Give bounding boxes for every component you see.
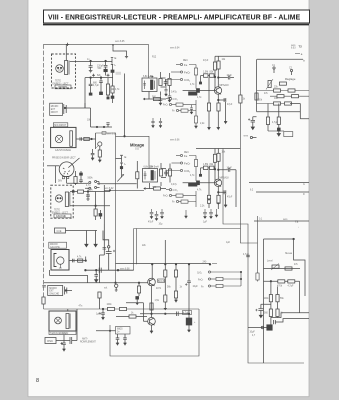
grounds under EQ R <box>159 86 193 113</box>
resistor on trimmer line <box>285 267 292 270</box>
cap inline <box>177 312 179 317</box>
svg-text:10μ: 10μ <box>159 224 164 226</box>
corner down <box>90 108 92 127</box>
ground triangle <box>190 112 193 114</box>
svg-text:vers 6.04: vers 6.04 <box>170 47 180 50</box>
base wire <box>183 90 217 92</box>
ground triangle <box>98 160 101 162</box>
switch contact E <box>111 58 113 61</box>
1k resistor wire <box>116 316 147 318</box>
ground triangle <box>150 217 153 219</box>
DIN pin squares <box>62 177 64 179</box>
label box MICRO EXT DROIT <box>50 103 63 115</box>
svg-text:DIN: DIN <box>58 181 62 183</box>
wire: east bus C <box>257 216 259 273</box>
link verticals <box>240 272 242 286</box>
svg-text:VIII - ENREGISTREUR-LECTEUR: VIII - ENREGISTREUR-LECTEUR - PREAMPLI- … <box>48 15 301 22</box>
wire: top rail right channel <box>44 44 149 78</box>
wiper arrow <box>117 175 123 182</box>
junction <box>91 138 93 140</box>
cap+gnd c <box>160 209 164 218</box>
resistor v1 bottom <box>267 104 269 118</box>
svg-text:4,7μF: 4,7μF <box>288 286 295 288</box>
wire osc to caps <box>56 340 70 342</box>
svg-text:RONFLEMENT: RONFLEMENT <box>80 342 96 344</box>
contact FeCr L <box>180 162 182 164</box>
bottom line <box>268 130 284 132</box>
title box <box>43 10 310 25</box>
capacitor C1 <box>89 61 93 71</box>
jack bars <box>65 287 67 295</box>
svg-text:vers 6.08: vers 6.08 <box>120 267 130 270</box>
column wire <box>103 185 105 224</box>
svg-text:TETE: TETE <box>55 81 61 83</box>
svg-text:FeCr: FeCr <box>163 104 168 107</box>
resistor inline b2 <box>288 280 295 283</box>
ground triangle <box>155 219 158 221</box>
bus resistor <box>239 95 242 103</box>
resistor chain on line y=90.5 <box>257 90 309 92</box>
svg-text:T2: T2 <box>295 220 299 224</box>
wire mic L out <box>69 260 86 262</box>
svg-text:CrO₂: CrO₂ <box>184 169 190 173</box>
ground triangle <box>209 217 212 219</box>
wire Fe to chain L <box>189 156 196 160</box>
svg-text:10μF: 10μF <box>227 167 233 169</box>
chain x=189 elco <box>188 264 190 281</box>
dashed shield box TETE DROITE <box>52 54 76 88</box>
ground triangle <box>207 199 210 201</box>
wire: mixage divider <box>116 133 150 283</box>
junction rail <box>102 308 104 310</box>
ground under C1 <box>89 71 93 73</box>
wire cue out <box>66 230 98 232</box>
wire: left frame vertical <box>43 44 45 297</box>
gnd g <box>215 209 218 217</box>
ground triangle <box>168 100 171 102</box>
cap with dark body <box>80 171 82 173</box>
switch lower lead <box>121 169 123 178</box>
junction dot <box>90 77 92 79</box>
transistor Q5 <box>148 278 156 286</box>
step line 2 <box>276 319 310 322</box>
svg-text:4,7μF: 4,7μF <box>183 313 190 315</box>
ground triangle <box>174 300 177 302</box>
inline resistor mic L <box>78 259 83 262</box>
switch lead vertical x124.5 <box>124 74 126 137</box>
second RC <box>169 164 171 170</box>
svg-text:vers 6.05: vers 6.05 <box>115 40 125 43</box>
pot chain box <box>98 292 101 298</box>
stage rail <box>215 55 240 57</box>
din column to cap row <box>103 224 105 255</box>
CUE box <box>55 228 66 233</box>
dark cap v2 <box>277 128 280 131</box>
resistor R2 vertical <box>112 72 114 86</box>
svg-text:R12: R12 <box>152 57 157 59</box>
svg-text:FeCr: FeCr <box>184 161 190 165</box>
bias resistor Rh1 <box>204 74 209 78</box>
OSC box <box>45 338 56 344</box>
svg-text:6,8k 1,5H: 6,8k 1,5H <box>144 166 154 168</box>
contact CrO2 2b <box>169 189 171 191</box>
chain y=103.5 <box>257 103 291 105</box>
chain x277.5 <box>277 287 279 318</box>
resistor below <box>95 206 97 209</box>
cap C3 bottom blob <box>89 93 92 95</box>
capacitor C3 <box>89 78 93 93</box>
wire into DIN left <box>47 165 59 167</box>
svg-text:↓: ↓ <box>298 226 299 229</box>
inline resistor rail 1 <box>108 307 115 310</box>
ground triangle <box>184 216 187 218</box>
dark tag box <box>189 183 198 186</box>
junction top rail <box>112 44 114 46</box>
frame cap <box>42 285 46 287</box>
ground triangle <box>123 343 126 345</box>
label box 6805 <box>116 327 131 335</box>
resistor to FeCr b <box>176 103 183 106</box>
wire head L output <box>70 191 110 193</box>
svg-text:OSC: OSC <box>47 339 53 343</box>
svg-text:0,47μ: 0,47μ <box>171 184 177 186</box>
gnd d <box>184 210 187 218</box>
erase head circle <box>55 317 62 324</box>
cap on mic out <box>73 259 75 263</box>
wire head R output <box>70 61 112 63</box>
svg-text:6.03: 6.03 <box>291 47 296 49</box>
output block outline left <box>263 239 265 363</box>
parallel RC <box>160 163 162 186</box>
svg-text:Fe: Fe <box>184 63 188 67</box>
chain x270.9 <box>270 281 272 327</box>
cap under junction <box>86 192 90 201</box>
contact circle rec <box>108 246 110 248</box>
contact a1 <box>89 182 91 184</box>
line y=314 <box>140 313 189 315</box>
head L core bars <box>65 192 68 207</box>
transistor T1 <box>214 87 221 94</box>
collector rail <box>116 263 211 265</box>
wire: bottom loop <box>110 309 199 356</box>
dark blob cap <box>99 214 102 217</box>
series cap on bus B <box>246 255 250 256</box>
svg-text:EXT: EXT <box>51 109 56 111</box>
branch gnd x96 <box>94 270 98 279</box>
ground triangle <box>136 303 139 305</box>
svg-text:10μF: 10μF <box>227 75 233 77</box>
inductor bar <box>151 171 153 181</box>
rail top right <box>257 58 303 60</box>
ground triangle <box>164 308 167 310</box>
cap x92.6 to gnd <box>91 149 95 160</box>
contact FeCr b <box>169 103 171 105</box>
svg-text:PRISE DIN ENR·LECT: PRISE DIN ENR·LECT <box>52 158 76 160</box>
wire: bus A lower link <box>240 229 257 244</box>
svg-text:4,7μF: 4,7μF <box>243 254 250 256</box>
second chain y=96.2 <box>270 95 309 97</box>
lower rail S1 <box>85 77 113 79</box>
mic capsule bracket <box>54 254 57 267</box>
wire: mic droit to mixage <box>96 132 116 134</box>
two stereo out lines <box>249 181 309 183</box>
svg-text:4,7n: 4,7n <box>86 185 91 187</box>
svg-text:47μF: 47μF <box>227 196 233 198</box>
ground triangle <box>159 103 162 105</box>
rail drop <box>214 56 216 62</box>
ground triangle <box>164 94 167 96</box>
step line 1 <box>271 313 309 318</box>
svg-text:CrO₂: CrO₂ <box>184 78 190 82</box>
wire: east bus A <box>134 56 241 228</box>
svg-text:220k: 220k <box>257 99 263 101</box>
resistor inline b1 <box>278 280 285 283</box>
plus mark 1uF <box>99 312 102 315</box>
svg-text:120pF: 120pF <box>97 66 104 68</box>
svg-text:Level: Level <box>267 261 273 263</box>
mic bus into Q5 base <box>44 282 148 284</box>
switch contacts Fe/FeCr/CrO2 group1 <box>166 63 183 86</box>
ground triangle <box>160 217 163 219</box>
mic L circle <box>57 257 64 264</box>
switch blob <box>120 167 122 169</box>
svg-text:G.D: G.D <box>135 149 139 151</box>
emitter bypass cap <box>218 98 227 124</box>
elco left <box>258 304 271 315</box>
erase head box <box>49 311 76 331</box>
bias resistor Rh2 <box>210 74 215 78</box>
contact Fe L <box>180 154 182 156</box>
gray tag <box>116 72 122 75</box>
vertical left <box>256 59 258 111</box>
capacitor C2 dark <box>105 61 107 65</box>
ground triangle <box>224 122 227 124</box>
plus mark <box>61 342 64 345</box>
svg-text:DROIT: DROIT <box>51 112 59 114</box>
trimmer line <box>264 268 301 270</box>
corner right <box>290 104 309 119</box>
collector tap cap <box>218 76 234 80</box>
contact circle bottom <box>261 326 263 328</box>
resistor Rb1 L <box>213 154 216 162</box>
trimmer 2 <box>279 82 286 85</box>
svg-text:4,7μF: 4,7μF <box>93 85 100 87</box>
series cap on mix bus <box>99 268 101 273</box>
svg-text:47μF: 47μF <box>148 222 154 224</box>
tape head R circle <box>56 65 64 73</box>
jack contact bars <box>64 104 66 114</box>
wire into 6805 box <box>96 330 116 332</box>
contact CrO2 <box>180 78 182 80</box>
junction 2 on head output <box>105 60 107 62</box>
contact CrO2 out <box>208 271 210 273</box>
emitter chain <box>217 94 219 103</box>
bias lower chain <box>208 78 210 103</box>
svg-text:100k: 100k <box>107 304 113 306</box>
collector resistor <box>217 61 220 69</box>
svg-text:MIC.DROIT: MIC.DROIT <box>54 125 67 127</box>
svg-text:E: E <box>125 155 127 159</box>
mic gauche link <box>50 270 88 283</box>
ground triangle <box>217 203 220 205</box>
gnd stub b <box>95 231 97 245</box>
resistor 82k vertical x108 <box>107 78 109 84</box>
head R pole dots <box>57 67 58 68</box>
vertical x137 <box>136 161 138 189</box>
link to pot chain <box>100 255 105 283</box>
DIN pins <box>63 168 70 175</box>
svg-text:vol.: vol. <box>104 288 108 290</box>
line y=281.3 <box>264 280 300 282</box>
svg-text:EXT: EXT <box>49 291 54 293</box>
dashed shield box TETE GAUCHE <box>51 185 73 218</box>
cap+gnd 4 under switch <box>190 105 193 113</box>
stage rail L <box>196 148 240 150</box>
wire head L lower <box>70 205 110 207</box>
trimmer dark blob <box>104 69 107 71</box>
label box DROITE <box>55 85 71 89</box>
junction dots <box>151 264 153 266</box>
niveau feed line <box>91 126 113 128</box>
cap+gnd e <box>203 209 207 218</box>
resistor in chain <box>150 303 153 310</box>
cap+gnd under EQ-R out chain 2 <box>159 118 162 128</box>
resistor v2 bottom <box>278 104 280 118</box>
line to T2 <box>254 220 309 222</box>
contact circle bottom S6 <box>250 136 252 138</box>
collector tap cap L <box>218 168 236 207</box>
label vers 6.01 <box>102 132 106 135</box>
trimmer niveau <box>272 265 279 268</box>
svg-text:47μF: 47μF <box>227 104 233 106</box>
end dashes <box>212 262 217 264</box>
bottom cluster under loop <box>96 327 130 346</box>
resistor chain L x196 <box>194 160 197 167</box>
cap+gnd 2 <box>165 86 168 95</box>
cap+gnd b <box>155 211 159 220</box>
svg-text:CrO₂: CrO₂ <box>173 98 178 101</box>
svg-text:Niveau: Niveau <box>285 253 293 255</box>
label box 4,7uF <box>183 311 192 315</box>
caps with grounds <box>116 334 120 345</box>
ground triangle <box>187 330 190 332</box>
cap horizontal <box>70 337 77 344</box>
bias resistor Rh2 L <box>210 166 215 170</box>
base bias resistor <box>138 283 140 286</box>
svg-text:47μF: 47μF <box>203 60 209 62</box>
resistor chain x196 <box>194 68 197 75</box>
resistor on DIN out <box>75 171 77 177</box>
mic gauche box <box>51 250 69 271</box>
svg-text:DROITE: DROITE <box>59 87 68 89</box>
label box BC149 <box>158 279 165 282</box>
mixer pot cluster S12 <box>85 224 134 309</box>
ground triangle <box>159 126 162 128</box>
erase head bars <box>66 314 69 329</box>
svg-text:E: E <box>115 56 117 60</box>
wire head shield to rail <box>65 44 67 60</box>
inline resistor <box>154 187 161 190</box>
tape head L circle <box>55 195 62 202</box>
plus mark <box>92 74 95 77</box>
contact Fe b <box>176 109 178 111</box>
base wire L <box>183 182 217 184</box>
wire Fe to chain <box>189 65 196 69</box>
ground triangle <box>215 215 218 217</box>
contacts row2 <box>89 187 91 189</box>
vertical link <box>95 192 97 206</box>
svg-text:30μF: 30μF <box>63 334 69 336</box>
lower horizontal <box>257 111 301 113</box>
mix bus <box>85 269 133 271</box>
svg-text:T2: T2 <box>299 44 303 48</box>
cap+gnd 1 <box>159 95 163 105</box>
record/play switch L contact L <box>120 159 123 167</box>
second parallel RC <box>169 73 171 78</box>
bias lower chain L <box>208 170 210 195</box>
lower link line <box>97 183 137 185</box>
svg-text:CrO₂: CrO₂ <box>173 189 178 192</box>
coupling cap dark L <box>197 181 200 185</box>
transistor T3 <box>214 179 221 186</box>
svg-text:MPSA18: MPSA18 <box>220 84 230 87</box>
svg-text:1μF: 1μF <box>226 242 231 244</box>
label box MICRO EXT GAUCHE <box>48 286 63 296</box>
resistor on left frame <box>42 297 45 304</box>
ground triangle <box>224 205 227 207</box>
switch contact L <box>111 61 113 64</box>
svg-text:6,8k 1,5H: 6,8k 1,5H <box>143 76 153 78</box>
dark cap <box>136 297 139 300</box>
svg-text:vers 6.01: vers 6.01 <box>107 132 117 135</box>
cap inline <box>80 137 82 140</box>
wire: east bus B <box>223 149 304 364</box>
resistor on vertical <box>255 93 258 100</box>
svg-text:10μF: 10μF <box>193 286 199 288</box>
elco cap vertical <box>62 335 66 351</box>
wire: anti-ronflement rail <box>44 308 200 310</box>
cap+gnd a <box>150 209 154 219</box>
wire down-left to mic bus <box>84 78 86 108</box>
ground triangle <box>62 349 65 351</box>
inline resistor <box>154 97 161 100</box>
elco on contact <box>106 248 112 270</box>
svg-text:470k: 470k <box>277 286 283 288</box>
wire: left frame lower stub <box>43 304 45 309</box>
mic circle <box>55 135 62 142</box>
label box MICRO GAUCHE <box>49 242 67 248</box>
collector resistor L <box>217 153 220 161</box>
svg-text:1μF: 1μF <box>96 314 101 316</box>
dark switch body <box>111 70 114 72</box>
contact Fe <box>180 63 182 65</box>
output block outline top <box>264 239 306 296</box>
elco dark bottom <box>186 318 192 325</box>
svg-text:1,5M: 1,5M <box>203 164 208 166</box>
pot niveau <box>98 142 102 146</box>
Q5 collector <box>151 264 153 278</box>
svg-text:0,47μ: 0,47μ <box>171 92 177 94</box>
cap in EQ box <box>143 81 146 90</box>
cap 1uF under rail <box>101 309 105 320</box>
junction dot <box>100 77 102 79</box>
wire to contacts row1 <box>76 182 89 184</box>
svg-text:FeCr: FeCr <box>184 70 190 74</box>
DIN socket circle <box>59 162 74 177</box>
svg-text:560k: 560k <box>88 178 94 180</box>
wire head top to rail <box>67 309 69 311</box>
chain x=176 <box>175 264 177 300</box>
